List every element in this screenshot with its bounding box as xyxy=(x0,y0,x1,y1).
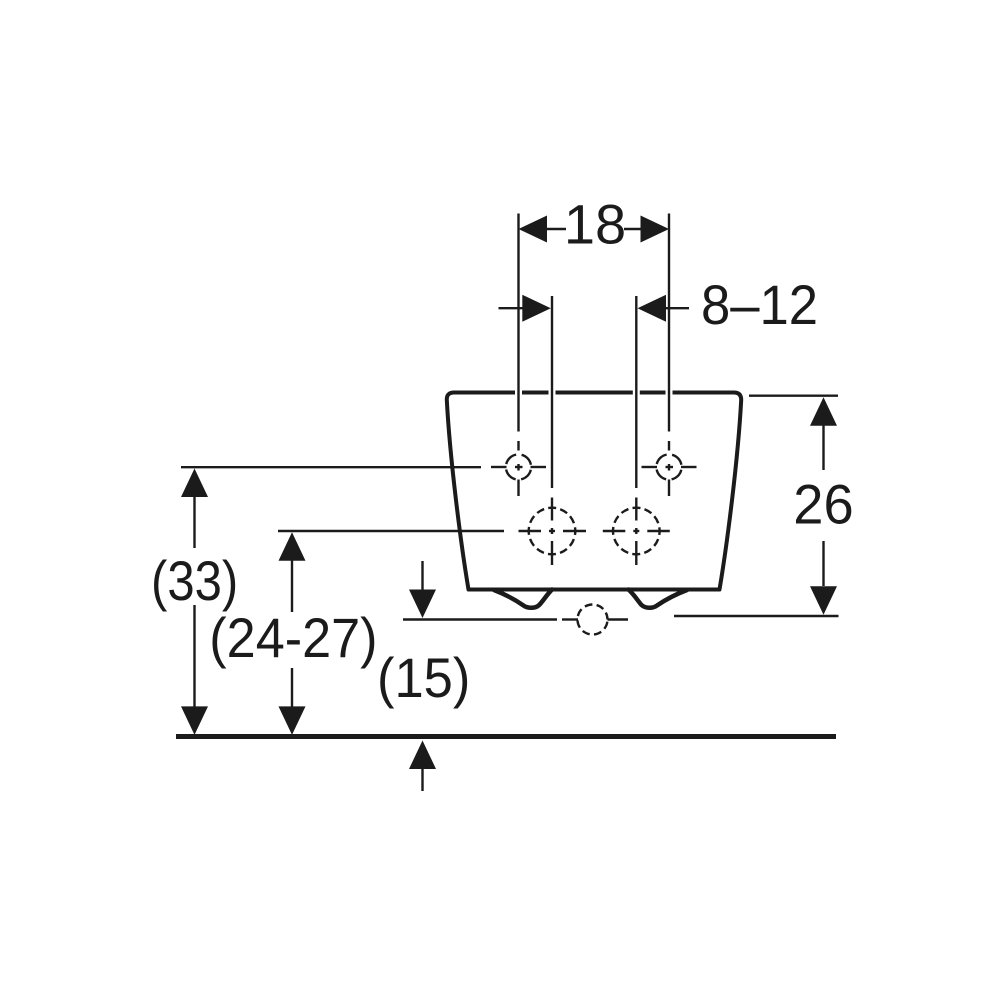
dimension 26 xyxy=(822,425,824,586)
extension line height 24-27 (horizontal) xyxy=(278,530,504,532)
svg-text:(33): (33) xyxy=(151,550,238,613)
floor reference arrow xyxy=(409,741,436,770)
extension line left hole 18 (vertical) xyxy=(517,214,519,432)
dimension (15) xyxy=(421,561,423,591)
large fixing hole right xyxy=(603,498,670,566)
dimension 8-12 xyxy=(499,307,690,309)
extension line height 33 (horizontal) xyxy=(181,466,481,468)
dimension 18 xyxy=(547,228,641,230)
extension line 26 bottom (horizontal) xyxy=(674,615,839,617)
svg-text:(15): (15) xyxy=(377,646,470,709)
extension line height 15 (horizontal) xyxy=(403,618,557,620)
white casing gaps on top edge where extension lines cross xyxy=(519,386,670,399)
extension line left hole 8-12 (vertical) xyxy=(551,296,553,488)
large fixing hole left xyxy=(519,498,587,566)
svg-text:(24-27): (24-27) xyxy=(209,607,377,669)
right foot (trap outline) xyxy=(629,590,688,608)
extension line 26 top (horizontal) xyxy=(749,395,838,397)
left foot (trap outline) xyxy=(494,590,552,608)
svg-text:18: 18 xyxy=(564,193,626,256)
svg-text:8–12: 8–12 xyxy=(701,274,818,337)
svg-text:26: 26 xyxy=(793,473,853,536)
extension line right hole 8-12 (vertical) xyxy=(635,296,637,488)
floor line xyxy=(176,734,836,739)
drain hole bottom xyxy=(562,605,628,635)
bidet body outline xyxy=(447,393,741,590)
small mounting hole right xyxy=(642,441,697,496)
dimension (24-27) xyxy=(291,560,293,708)
extension line right hole 18 (vertical) xyxy=(668,214,670,432)
small mounting hole left xyxy=(491,441,546,496)
dimension (33) xyxy=(193,496,195,708)
